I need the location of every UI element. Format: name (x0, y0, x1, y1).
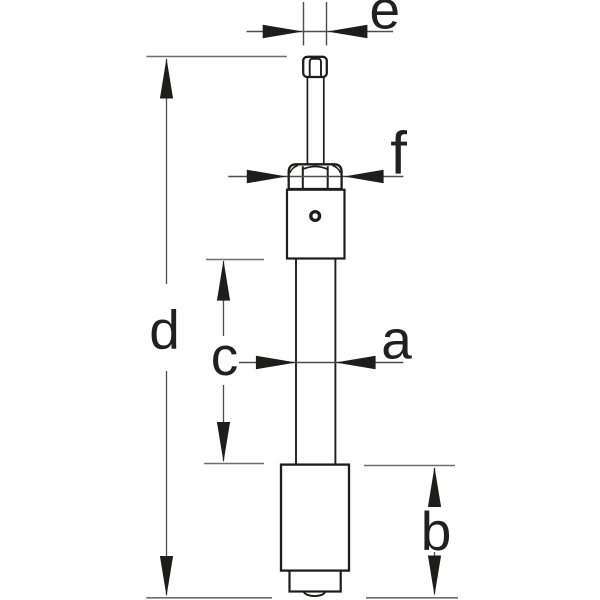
dimension b top arrow (428, 467, 441, 507)
bottom cylinder (281, 465, 349, 571)
dimension c bottom extension line (204, 463, 264, 465)
dimension c top extension line (206, 259, 264, 261)
dimension e left arrow (263, 25, 303, 39)
dimension b line upper segment (434, 468, 436, 506)
dimension f line over nut (290, 176, 341, 178)
dimension f left arrow (247, 170, 287, 184)
dimension c bottom arrow (217, 422, 230, 462)
dimension b bottom arrow (428, 556, 441, 596)
body block (287, 190, 345, 259)
dimension a right arrow (335, 356, 375, 370)
dimension d line lower segment (166, 371, 168, 595)
dimension a left arrow (256, 356, 296, 370)
svg-text:b: b (421, 500, 452, 562)
dimension c line lower segment (223, 385, 225, 461)
dimension d bottom extension line (146, 597, 272, 599)
dimension d top arrow (160, 58, 173, 98)
upper shaft left edge (306, 77, 308, 165)
hex nut right facet (327, 166, 329, 188)
dimension e extension line left vertical (303, 2, 305, 46)
dimension c line upper segment (223, 261, 225, 336)
dimension e extension line right vertical (326, 2, 328, 46)
dimension f line (228, 176, 403, 178)
hex nut left chamfer arc (290, 165, 298, 173)
main shaft left edge (295, 259, 297, 465)
svg-text:c: c (211, 325, 239, 387)
dimension b bottom extension line (366, 597, 458, 599)
hex nut right chamfer arc (332, 165, 340, 173)
svg-text:e: e (370, 0, 401, 41)
dimension c top arrow (217, 260, 230, 300)
dimension d top extension line (146, 56, 286, 58)
block hole (311, 212, 320, 221)
dimension e line (247, 31, 394, 33)
stud cap middle arch facets (310, 59, 321, 77)
dimension f right arrow (344, 170, 384, 184)
foot (290, 571, 341, 592)
svg-text:f: f (390, 119, 407, 186)
main shaft right edge (334, 259, 336, 465)
bottom dome (304, 592, 325, 597)
dimension d line upper segment (166, 59, 168, 284)
hex nut left facet (302, 166, 304, 188)
dimension a line (239, 362, 403, 364)
dimension e right arrow (327, 25, 367, 39)
hex nut middle chamfer arc (303, 167, 328, 170)
dimension d bottom arrow (160, 556, 173, 596)
hex nut body (289, 164, 342, 189)
svg-text:a: a (381, 308, 412, 370)
stud cap (303, 57, 327, 77)
upper shaft right edge (323, 77, 325, 165)
svg-text:d: d (149, 298, 180, 360)
dimension b top extension line (364, 465, 455, 467)
dimension b line lower segment (434, 552, 436, 594)
